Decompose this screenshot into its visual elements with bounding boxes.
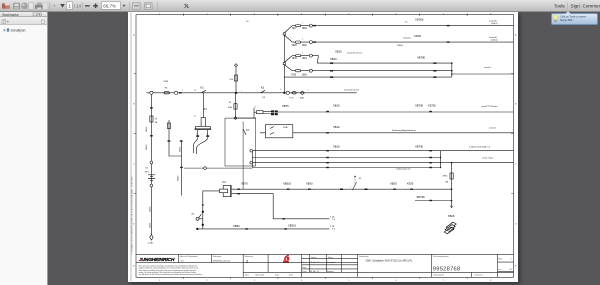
svg-text:2: 2 (206, 279, 208, 281)
svg-text:2: 2 (280, 88, 281, 90)
svg-text:st.set.24 Ch.5.st: st.set.24 Ch.5.st (344, 88, 359, 91)
svg-text:sw: sw (405, 21, 408, 23)
svg-text:5: 5 (348, 279, 350, 281)
svg-text:K3: K3 (262, 96, 265, 98)
svg-text:XB700: XB700 (415, 103, 424, 107)
svg-text:F1: F1 (229, 102, 232, 104)
svg-text:Benennung: Benennung (359, 256, 368, 258)
svg-text:06. Mrz. 15: 06. Mrz. 15 (310, 269, 319, 272)
svg-text:4: 4 (301, 279, 303, 281)
svg-text:C: C (133, 163, 135, 165)
svg-text:Diese Zeichnung und diese Unte: Diese Zeichnung und diese Unterlagen sin… (138, 264, 197, 267)
svg-text:B: B (133, 103, 135, 105)
svg-text:15. Dez. 14: 15. Dez. 14 (310, 261, 319, 263)
svg-text:3: 3 (254, 279, 256, 281)
svg-text:XB790: XB790 (415, 144, 424, 148)
svg-text:XB510: XB510 (283, 181, 292, 185)
svg-text:XB75: XB75 (282, 104, 289, 108)
svg-text:XB30: XB30 (390, 181, 397, 185)
svg-text:X3/50: X3/50 (414, 34, 422, 38)
svg-text:2: 2 (206, 13, 208, 15)
svg-text:Sign: Sign (571, 3, 581, 8)
svg-text:50A: 50A (228, 106, 232, 109)
svg-text:30A: 30A (302, 72, 307, 76)
svg-text:7: 7 (443, 279, 445, 281)
svg-text:Comment: Comment (583, 3, 600, 8)
svg-text:Änderung-Nr.: Änderung-Nr. (255, 273, 264, 276)
svg-text:14: 14 (509, 269, 512, 271)
svg-text:6: 6 (396, 279, 398, 281)
svg-text:7.6: 7.6 (332, 228, 336, 230)
svg-text:F20: F20 (291, 72, 296, 76)
svg-text:16: 16 (254, 106, 256, 108)
svg-text:Name: Name (289, 274, 293, 276)
svg-text:2: 2 (196, 133, 197, 135)
svg-text:XB60: XB60 (233, 223, 240, 227)
svg-text:st.set.25 Ch.5.st: st.set.25 Ch.5.st (347, 51, 362, 54)
svg-text:XB46: XB46 (149, 205, 151, 211)
svg-text:st.set.4: st.set.4 (489, 126, 497, 129)
svg-text:K1: K1 (200, 85, 204, 89)
svg-text:XB71: XB71 (179, 145, 181, 151)
svg-text:XB29: XB29 (448, 213, 455, 217)
svg-text:30A: 30A (302, 43, 307, 47)
svg-text:18: 18 (194, 90, 196, 92)
svg-text:A: A (515, 33, 517, 36)
svg-text:Zeichnungsnummer: Zeichnungsnummer (433, 255, 449, 258)
svg-text:XB30: XB30 (306, 181, 313, 185)
svg-text:Dateiname: Dateiname (213, 255, 222, 258)
svg-text:Toleranzen: Toleranzen (244, 255, 253, 258)
svg-text:B: B (515, 103, 517, 105)
svg-text:99528762_001_00: 99528762_001_00 (213, 260, 231, 262)
svg-text:K7: K7 (246, 128, 250, 132)
svg-text:8: 8 (490, 279, 492, 281)
svg-text:(2x0,5): (2x0,5) (491, 22, 498, 24)
svg-text:3F8: 3F8 (292, 43, 297, 47)
svg-text:Sicherung Magnetbremse: Sicherung Magnetbremse (392, 128, 417, 131)
svg-text:Name: Name (328, 256, 333, 258)
svg-text:F6: F6 (165, 87, 168, 89)
svg-text:5-10mm Drehzahlf. 7.4: 5-10mm Drehzahlf. 7.4 (469, 145, 491, 148)
svg-text:1: 1 (350, 186, 351, 188)
svg-text:XB41: XB41 (146, 125, 148, 131)
svg-text:K2: K2 (222, 180, 226, 184)
svg-text:3A: 3A (445, 180, 448, 183)
svg-text:5: 5 (348, 13, 350, 15)
svg-text:6: 6 (396, 13, 398, 15)
svg-text:OO: OO (180, 260, 184, 262)
svg-text:Baumeist: Baumeist (327, 269, 334, 272)
svg-text:K530: K530 (407, 181, 414, 185)
svg-text:D: D (515, 223, 517, 225)
svg-text:Blatt: Blatt (498, 257, 502, 260)
svg-text:XB10: XB10 (335, 49, 342, 53)
svg-text:E: E (133, 265, 135, 267)
svg-text:Datum: Datum (311, 255, 317, 258)
svg-text:7: 7 (443, 13, 445, 15)
svg-text:3: 3 (254, 13, 256, 15)
svg-text:X365a: X365a (397, 45, 404, 47)
svg-text:Bookmarks: Bookmarks (3, 13, 19, 17)
svg-text:Erst.: Erst. (302, 260, 306, 263)
svg-text:2A: 2A (155, 121, 158, 124)
svg-text:2: 2 (307, 89, 308, 91)
svg-text:Schaltplan: Schaltplan (11, 29, 26, 33)
svg-text:Index der Teilefreigabe: Index der Teilefreigabe (179, 255, 197, 258)
svg-text:XB790: XB790 (417, 55, 426, 59)
svg-text:K5700: K5700 (428, 103, 436, 107)
svg-text:48 V: 48 V (145, 171, 150, 173)
svg-text:80A: 80A (300, 96, 304, 99)
svg-text:X3/50b: X3/50b (415, 17, 424, 21)
svg-text:Merge PDF...: Merge PDF... (560, 19, 574, 22)
svg-text:66,7%: 66,7% (103, 4, 116, 9)
svg-text:30A: 30A (302, 26, 307, 30)
svg-text:K5W: K5W (163, 81, 168, 83)
svg-text:2: 2 (302, 22, 303, 24)
svg-text:S2: S2 (359, 177, 362, 179)
svg-text:GNE: Schaltplan SNG ET110 (2x: GNE: Schaltplan SNG ET110 (2x MFC) PL (365, 259, 413, 262)
svg-text:1: 1 (510, 258, 512, 260)
svg-text:/ 14: / 14 (74, 4, 82, 9)
svg-text:XB70: XB70 (241, 181, 248, 185)
svg-text:F4: F4 (155, 118, 157, 120)
svg-text:2: 2 (302, 39, 303, 41)
svg-text:K3: K3 (261, 85, 265, 89)
svg-text:schwarz: schwarz (403, 36, 411, 39)
svg-text:X540: X540 (283, 127, 289, 129)
svg-text:16: 16 (194, 115, 196, 117)
svg-text:Gepr.: Gepr. (302, 265, 307, 268)
svg-text:XB10: XB10 (333, 144, 340, 148)
svg-text:1: 1 (147, 106, 148, 108)
svg-text:C: C (515, 163, 517, 165)
svg-text:JUNGHEINRICH: JUNGHEINRICH (139, 256, 175, 262)
svg-text:7.6: 7.6 (332, 218, 336, 220)
svg-text:XB10: XB10 (330, 57, 337, 61)
svg-text:3F7: 3F7 (292, 26, 297, 30)
svg-text:5F6: 5F6 (230, 78, 233, 80)
svg-text:st.set.PTC.Fahrm.: st.set.PTC.Fahrm. (481, 104, 498, 107)
svg-text:8: 8 (490, 13, 492, 15)
svg-text:3F9: 3F9 (292, 55, 297, 59)
svg-text:2: 2 (182, 90, 183, 92)
svg-text:XB10: XB10 (333, 124, 340, 128)
svg-text:2:6: 2:6 (246, 21, 248, 23)
svg-text:E: E (515, 265, 517, 267)
svg-text:1: 1 (286, 30, 287, 32)
svg-text:XB40: XB40 (146, 143, 148, 149)
svg-text:Codierung 0 sw: Codierung 0 sw (396, 167, 411, 170)
svg-text:30A: 30A (302, 55, 307, 59)
svg-text:Ersatz für: Ersatz für (475, 273, 483, 276)
svg-text:XB10: XB10 (333, 103, 340, 107)
svg-text:K1: K1 (204, 107, 208, 111)
svg-text:st.set.3: st.set.3 (484, 66, 492, 69)
svg-text:XF15: XF15 (442, 175, 448, 177)
svg-text:A: A (133, 33, 135, 36)
svg-text:D: D (133, 223, 135, 225)
svg-text:1: 1 (201, 133, 202, 135)
svg-text:1: 1 (159, 279, 161, 281)
svg-text:XB510: XB510 (288, 223, 297, 227)
svg-text:Datum: Datum (275, 273, 280, 276)
svg-text:st.set.7 (2x): st.set.7 (2x) (482, 156, 493, 159)
svg-text:G1: G1 (145, 167, 149, 169)
svg-text:XB41: XB41 (149, 221, 151, 227)
svg-text:Ursprungsteil: Ursprungsteil (433, 273, 444, 276)
svg-text:1: 1 (246, 259, 248, 263)
svg-text:1: 1 (159, 13, 161, 15)
svg-text:4: 4 (301, 13, 303, 15)
svg-text:99528768: 99528768 (433, 266, 461, 272)
svg-text:Tools: Tools (554, 3, 565, 8)
svg-text:-S5: -S5 (191, 213, 195, 215)
svg-text:4. Schaltplan wurde elektronis: 4. Schaltplan wurde elektronisch erstell… (130, 175, 133, 254)
svg-text:Index: Index (245, 274, 249, 276)
svg-text:von: von (498, 268, 501, 270)
svg-text:XB790: XB790 (416, 195, 425, 199)
svg-text:F 15: F 15 (289, 97, 294, 99)
svg-text:2: 2 (302, 52, 303, 54)
svg-text:XB60: XB60 (177, 174, 179, 180)
svg-text:Bauernfeind: Bauernfeind (327, 260, 335, 263)
svg-text:+L2/B1: +L2/B1 (147, 242, 153, 244)
svg-text:1: 1 (68, 4, 71, 10)
svg-text:(2x0,5): (2x0,5) (491, 39, 498, 41)
svg-text:Freig.: Freig. (302, 269, 307, 272)
